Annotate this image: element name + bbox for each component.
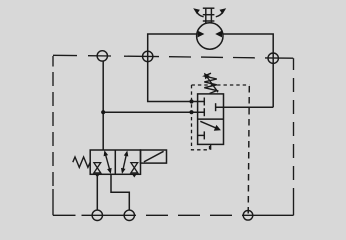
directional valve divider	[114, 150, 116, 174]
wire motor right line	[223, 34, 273, 107]
port circle top B	[143, 51, 153, 61]
port circle top A	[97, 51, 107, 61]
node junction dot on pilot boundary lower	[189, 110, 193, 114]
reducing valve drain stub	[210, 144, 212, 149]
drain pilot line to tank (dashed)	[248, 86, 249, 215]
reducing valve adjusting spring	[204, 73, 217, 93]
wire reducing valve outlet to motor	[216, 106, 274, 108]
reducing valve spool flow arrow	[200, 121, 221, 131]
port circle bottom T2	[243, 211, 253, 221]
pressure reducing valve body	[198, 94, 224, 144]
directional valve right blocked port symbol	[131, 163, 138, 178]
reducing valve upper port tick 2	[203, 108, 205, 116]
port circle bottom T1	[124, 210, 134, 220]
directional valve return spring	[73, 157, 90, 167]
wire valve P port drop	[96, 174, 98, 210]
port circle bottom P	[92, 210, 102, 220]
motor rotation arrow left	[193, 8, 203, 16]
motor inlet triangle right	[215, 31, 222, 38]
reducing valve adjustment arrow	[204, 73, 218, 92]
node junction dot on pilot boundary upper	[189, 99, 193, 103]
enclosure left border (dashed)	[52, 56, 54, 215]
directional valve 3/2 body	[90, 150, 140, 174]
enclosure top border (dashed)	[53, 55, 293, 58]
enclosure bottom border (dashed)	[53, 214, 294, 216]
pilot assembly dotted boundary	[192, 85, 250, 150]
hydraulic motor M1 circle	[197, 23, 223, 49]
wire motor left line	[148, 34, 205, 102]
reducing valve body divider	[198, 118, 224, 120]
motor rotation arrow right	[216, 8, 226, 16]
reducing valve upper port tick 1	[203, 98, 205, 106]
node junction dot at riser branch	[101, 110, 105, 114]
motor shaft symbol	[203, 8, 215, 23]
directional valve left blocked port symbol	[94, 163, 101, 178]
directional valve solenoid	[141, 150, 167, 163]
directional valve right position flow arrow	[121, 151, 128, 174]
enclosure right border (dashed)	[293, 58, 295, 215]
motor inlet triangle left	[198, 31, 205, 38]
reducing valve outlet tick	[215, 103, 217, 111]
wire valve T port drop	[111, 174, 129, 210]
directional valve left position flow arrow	[104, 150, 112, 174]
port circle top C	[268, 53, 278, 63]
wire branch to reducing valve lower port	[103, 111, 204, 113]
wire port A riser to valve	[102, 61, 104, 150]
reducing valve lower-left port tick	[198, 131, 205, 139]
